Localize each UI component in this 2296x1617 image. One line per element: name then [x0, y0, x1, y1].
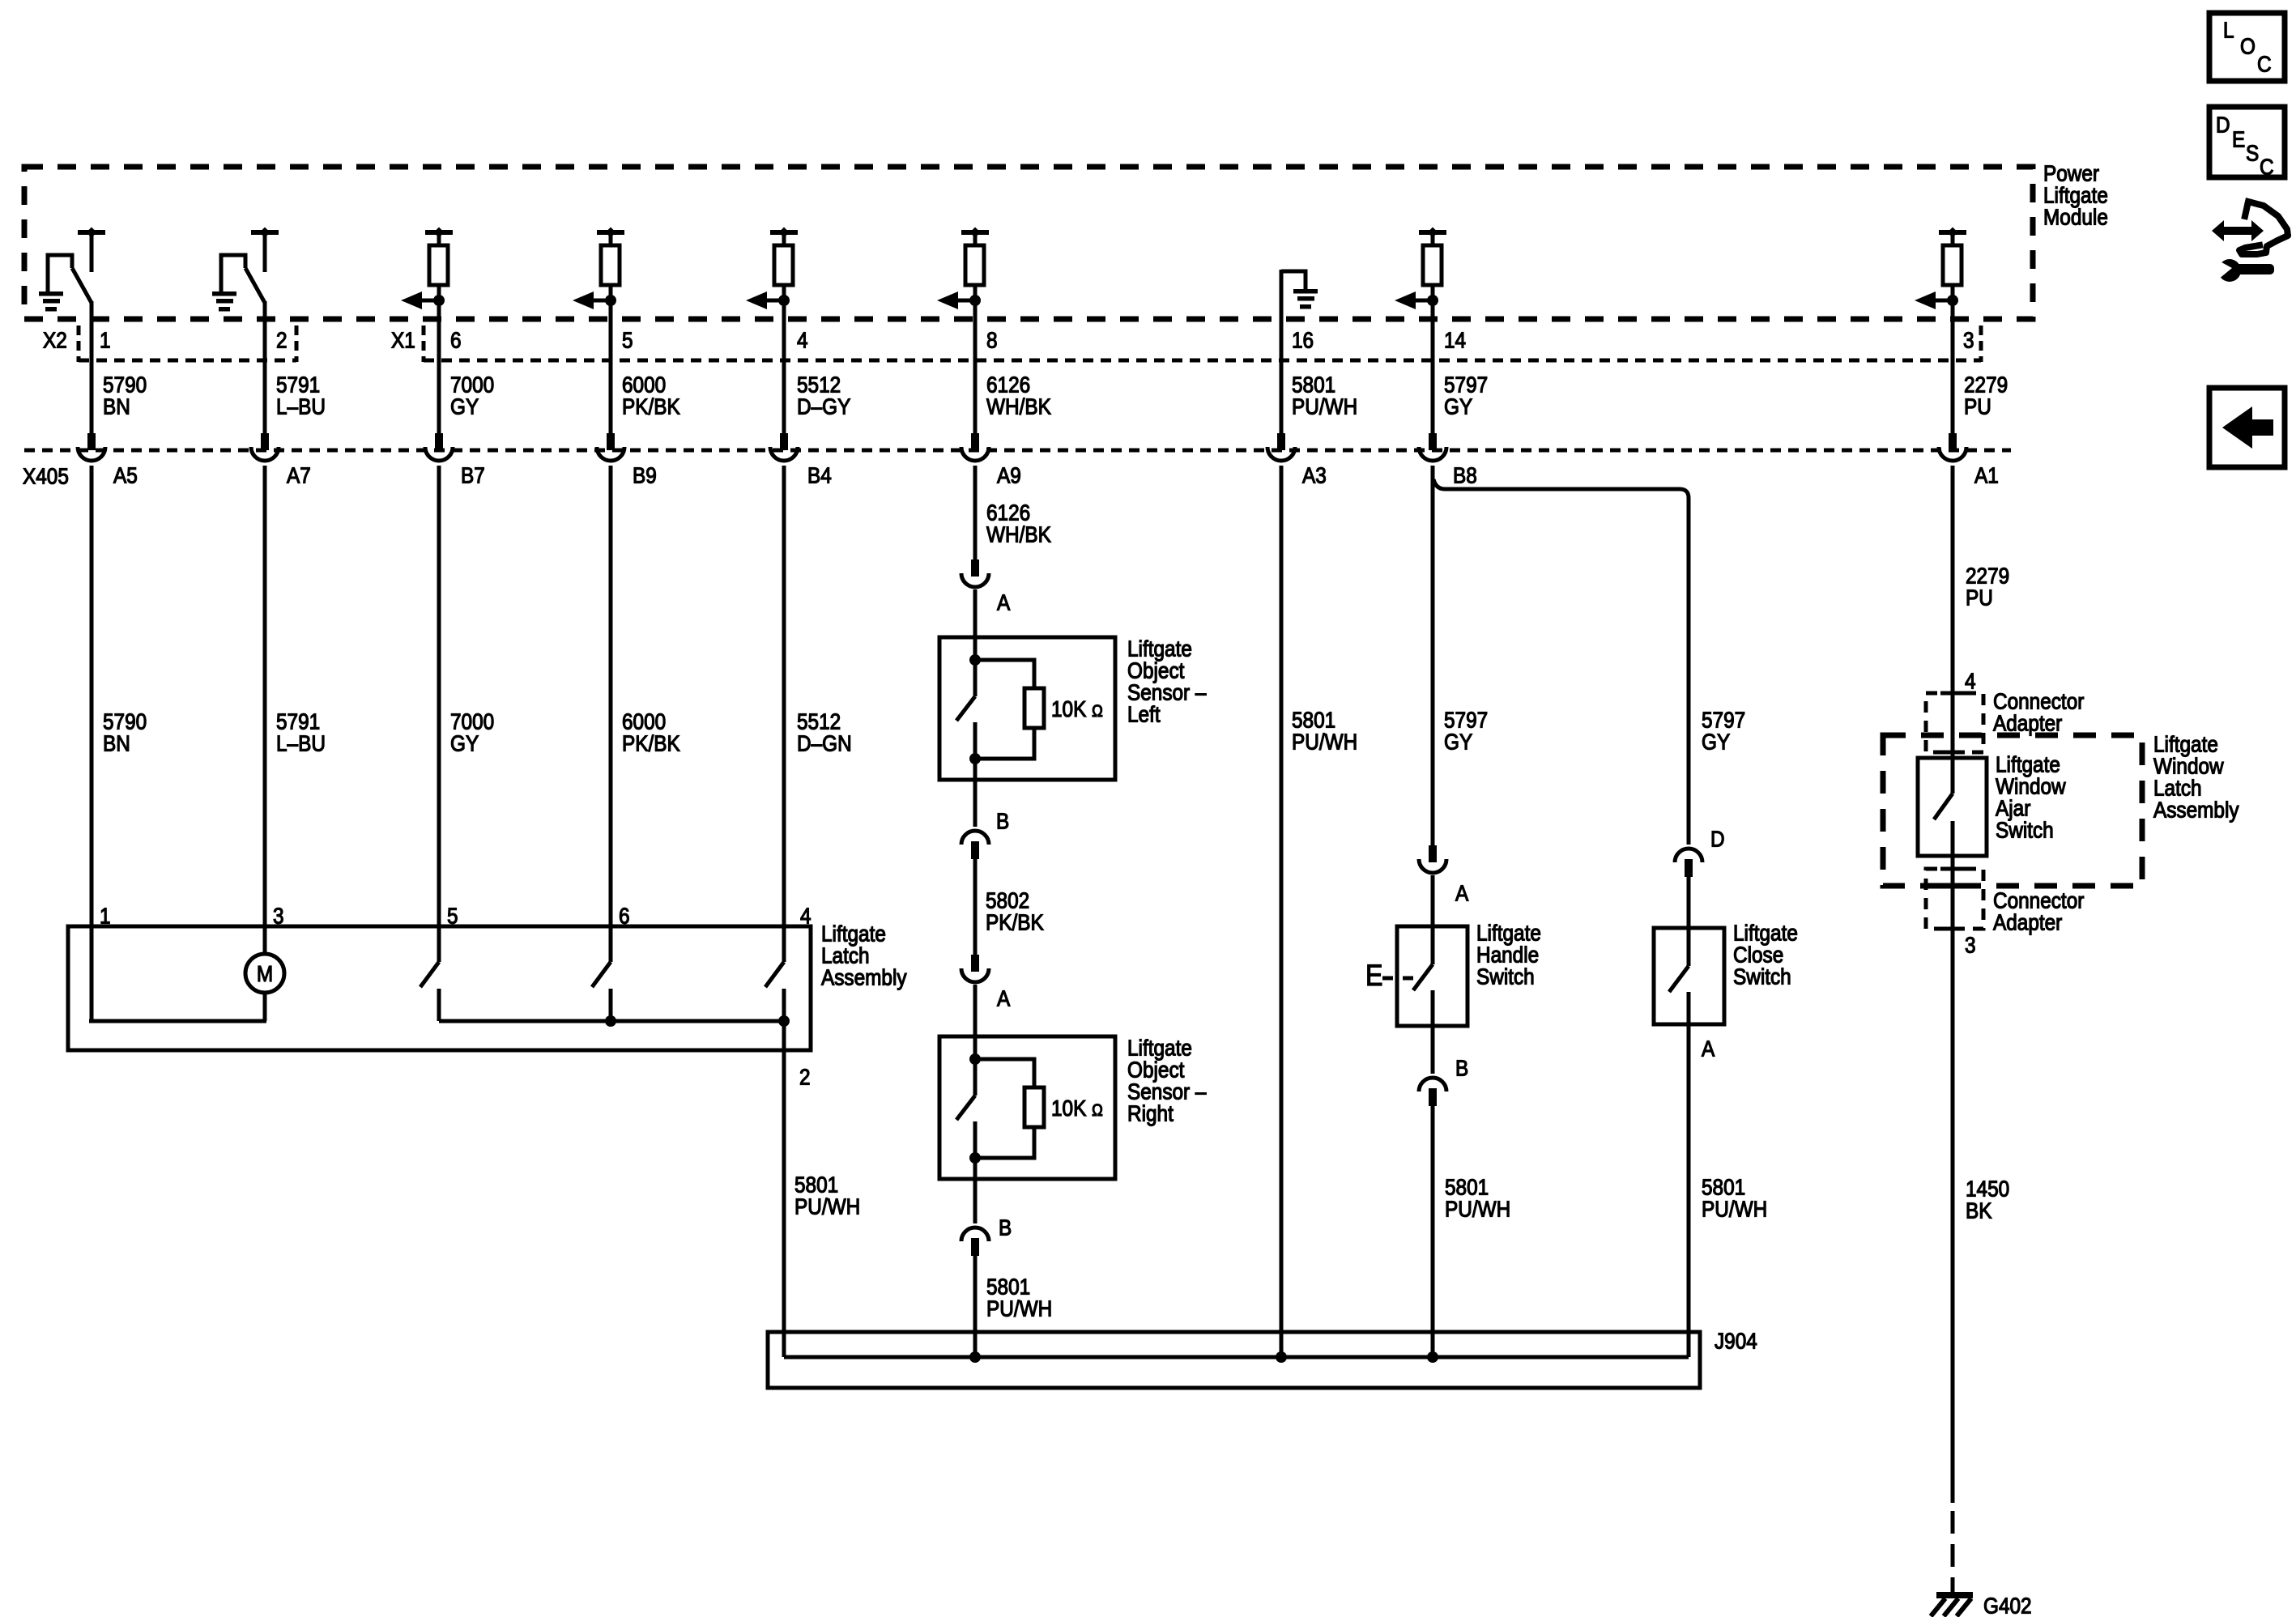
connector X405 terminal B8 — [1419, 433, 1446, 461]
connector X405 terminal A1 — [1939, 433, 1966, 461]
svg-text:X1: X1 — [391, 327, 415, 353]
svg-text:D: D — [2216, 112, 2230, 138]
svg-text:J904: J904 — [1715, 1328, 1757, 1354]
LOC icon box — [2209, 13, 2285, 81]
sensor Right switch — [956, 1096, 975, 1158]
wire sensor right to B — [973, 1179, 978, 1223]
svg-text:5: 5 — [622, 327, 633, 353]
connector X405 terminal A5 — [78, 433, 105, 461]
svg-text:3: 3 — [1963, 327, 1974, 353]
wire 5801 PU/WH sensor to J904 — [973, 1256, 978, 1357]
svg-text:6: 6 — [619, 903, 630, 929]
latch switch at pin 6 — [592, 962, 611, 1021]
svg-text:G402: G402 — [1983, 1593, 2032, 1617]
wire resistor to pin 3 — [1951, 285, 1955, 433]
svg-text:X405: X405 — [23, 463, 69, 489]
svg-text:C: C — [2257, 51, 2272, 77]
in-line connector terminal A (sensor right) (pin over cup) — [961, 955, 989, 982]
Liftgate Latch Assembly box — [68, 926, 811, 1050]
wire 5797 GY B8 to handle switch — [1431, 466, 1435, 845]
Liftgate Object Sensor Right box — [939, 1036, 1115, 1179]
wire resistor to pin 8 — [973, 285, 978, 433]
wire resistor to pin 6 — [437, 285, 441, 433]
connector X405 terminal A7 — [251, 433, 279, 461]
latch internal bus (switches) — [439, 1019, 784, 1023]
svg-text:B: B — [1455, 1055, 1468, 1081]
motor M (latch release) — [245, 954, 284, 1021]
svg-text:A3: A3 — [1302, 462, 1327, 488]
svg-text:S: S — [2246, 140, 2259, 166]
svg-text:A: A — [997, 985, 1011, 1011]
connector X405 terminal B7 — [425, 433, 453, 461]
svg-text:B4: B4 — [807, 462, 832, 488]
wire 5801 PU/WH handle to J904 — [1431, 1106, 1435, 1357]
connector X405 row (dotted) — [24, 449, 2011, 453]
resistor (module internal) at pin 5 — [601, 245, 620, 285]
signal direction arrow pin 5 — [573, 291, 611, 309]
wire latch pin 2 to J904 — [782, 1021, 786, 1357]
wire 5802 PK/BK — [973, 859, 978, 955]
in-line connector terminal A (sensor left) (pin over cup) — [961, 560, 989, 587]
node E with dashed link — [1365, 960, 1413, 993]
svg-text:D: D — [1710, 826, 1725, 852]
module pin 2 T-bar contact node — [251, 228, 279, 273]
sensor Right resistor 10K — [975, 1059, 1034, 1087]
Connector Adapter (upper dashed box) — [1926, 693, 1983, 752]
svg-text:E: E — [2232, 126, 2245, 152]
wire below sensor Right — [973, 1158, 978, 1179]
svg-text:C: C — [2260, 154, 2274, 180]
connector X405 terminal A3 — [1267, 433, 1295, 461]
svg-text:O: O — [2240, 33, 2256, 59]
svg-text:4: 4 — [797, 327, 808, 353]
signal direction arrow pin 3 — [1915, 291, 1953, 309]
wire below sensor Left — [973, 759, 978, 780]
connector service icon (arrow + wrench) — [2212, 202, 2288, 282]
in-line connector terminal B (handle switch) (cup over pin) — [1419, 1078, 1446, 1106]
wire to close switch — [1687, 877, 1691, 928]
module pin 4 T-bar contact node — [770, 228, 798, 248]
wire to sensor right — [973, 985, 978, 1036]
svg-text:14: 14 — [1444, 327, 1466, 353]
sensor Right internal wire/junctions — [973, 1036, 978, 1096]
svg-text:B7: B7 — [461, 462, 485, 488]
signal direction arrow pin 4 — [746, 291, 784, 309]
ground symbol (module internal) pin 2 — [212, 291, 236, 312]
Liftgate Object Sensor Left box — [939, 637, 1115, 780]
wire pin 1 — [90, 301, 94, 433]
wire 5801 PU/WH close to J904 — [1687, 1024, 1691, 1357]
svg-text:LiftgateHandleSwitch: LiftgateHandleSwitch — [1476, 920, 1541, 989]
svg-text:A: A — [997, 589, 1011, 615]
latch switch at pin 5 — [420, 962, 439, 1021]
ground G402 symbol — [1931, 1592, 1973, 1616]
connector X1 pin band — [422, 326, 426, 362]
junction node pin 3 — [1947, 295, 1958, 306]
connector X405 terminal B4 — [770, 433, 798, 461]
sensor Left resistor 10K — [975, 660, 1034, 688]
module pin 1 T-bar contact node — [78, 228, 105, 273]
Liftgate Close Switch box — [1654, 928, 1724, 1024]
wire 5512 D-GN to latch pin 4 — [782, 466, 786, 962]
switch contacts inside close switch — [1669, 930, 1689, 1024]
wire to sensor left — [973, 589, 978, 637]
svg-text:A: A — [1455, 880, 1469, 906]
back arrow icon box — [2209, 388, 2285, 467]
signal direction arrow pin 8 — [937, 291, 975, 309]
latch switch at pin 4 — [765, 962, 784, 1021]
wire resistor to pin 4 — [782, 285, 786, 433]
in-line connector terminal D (close switch) (cup over pin) — [1675, 849, 1702, 877]
sensor Left switch — [956, 696, 975, 759]
wire 5801 PU/WH A3 to J904 — [1280, 466, 1284, 1357]
wire 5790 BN to latch pin 1 — [90, 466, 94, 1021]
wire resistor to pin 5 — [609, 285, 613, 433]
svg-text:B: B — [999, 1215, 1012, 1240]
svg-text:M: M — [257, 960, 273, 986]
svg-text:8: 8 — [986, 327, 998, 353]
connector X405 terminal B9 — [597, 433, 624, 461]
svg-text:16: 16 — [1292, 327, 1314, 353]
svg-text:A1: A1 — [1974, 462, 1999, 488]
junction node pin 5 — [605, 295, 616, 306]
svg-text:A9: A9 — [997, 462, 1021, 488]
Liftgate Handle Switch box — [1397, 926, 1467, 1026]
svg-text:5: 5 — [447, 903, 458, 929]
Connector Adapter (lower dashed box) — [1926, 869, 1983, 929]
module pin 5 T-bar contact node — [597, 228, 624, 248]
svg-text:4: 4 — [1965, 668, 1976, 694]
resistor (module internal) at pin 6 — [429, 245, 448, 285]
svg-text:A5: A5 — [113, 462, 138, 488]
wire branch B8 to close switch — [1433, 479, 1689, 845]
resistor (module internal) at pin 3 — [1943, 245, 1962, 285]
svg-text:1: 1 — [100, 327, 111, 353]
latch internal bus (motor) — [89, 1019, 266, 1023]
module pin 14 T-bar contact node — [1419, 228, 1446, 248]
wire 6126 WH/BK below A9 — [973, 466, 978, 560]
svg-text:L: L — [2223, 17, 2234, 43]
svg-text:2: 2 — [799, 1064, 811, 1090]
wire 7000 GY to latch pin 5 — [437, 466, 441, 962]
Power Liftgate Module (dashed box) — [24, 167, 2033, 319]
signal direction arrow pin 14 — [1395, 291, 1433, 309]
svg-text:1: 1 — [100, 903, 111, 929]
module pin 6 T-bar contact node — [425, 228, 453, 248]
svg-text:B8: B8 — [1453, 462, 1477, 488]
svg-text:B: B — [996, 808, 1009, 834]
resistor (module internal) at pin 8 — [965, 245, 984, 285]
splice pack J904 — [768, 1332, 1700, 1388]
connector X2 pin band — [77, 326, 81, 362]
wire resistor to pin 14 — [1431, 285, 1435, 433]
junction node pin 8 — [969, 295, 981, 306]
wire to handle switch — [1431, 875, 1435, 926]
in-line connector terminal B (sensor right) (cup over pin) — [961, 1228, 989, 1256]
DESC icon box — [2209, 107, 2285, 180]
resistor (module internal) at pin 14 — [1423, 245, 1442, 285]
ajar switch contacts — [1934, 794, 1953, 1503]
wire 1450 BK dashed to ground — [1951, 1511, 1955, 1594]
wire pin 2 — [263, 301, 267, 433]
in-line connector terminal B (sensor left) (cup over pin) — [961, 831, 989, 859]
svg-text:4: 4 — [800, 903, 811, 929]
wire 6000 PK/BK to latch pin 6 — [609, 466, 613, 962]
junction dot J904 (A3 wire) — [1276, 1351, 1287, 1363]
junction node pin 14 — [1427, 295, 1438, 306]
resistor (module internal) at pin 4 — [774, 245, 793, 285]
switch to ground (module internal) pin 2 — [221, 255, 265, 303]
ground symbol (module internal) pin 16 — [1281, 271, 1318, 309]
svg-text:2: 2 — [276, 327, 288, 353]
wire sensor left to B — [973, 780, 978, 827]
svg-text:A7: A7 — [287, 462, 311, 488]
junction dot J904 (handle wire) — [1427, 1351, 1438, 1363]
junction node pin 4 — [778, 295, 790, 306]
svg-text:5791L–BU: 5791L–BU — [276, 372, 326, 419]
module pin 8 T-bar contact node — [961, 228, 989, 248]
svg-text:X2: X2 — [43, 327, 67, 353]
signal direction arrow pin 6 — [401, 291, 439, 309]
switch contacts inside handle switch — [1413, 928, 1433, 1026]
junction node pin 6 — [433, 295, 445, 306]
wire pin 16 — [1280, 270, 1284, 433]
svg-text:3: 3 — [273, 903, 284, 929]
Liftgate Window Ajar Switch box — [1918, 758, 1987, 856]
in-line connector terminal A (handle switch) (pin over cup) — [1419, 845, 1446, 873]
switch to ground (module internal) pin 1 — [48, 255, 92, 303]
module pin 3 T-bar contact node — [1939, 228, 1966, 248]
svg-text:3: 3 — [1965, 932, 1976, 958]
sensor Left internal wire/junctions — [973, 637, 978, 696]
svg-text:A: A — [1702, 1036, 1715, 1062]
svg-text:B9: B9 — [633, 462, 657, 488]
wire 2279 PU A1 down — [1951, 466, 1955, 794]
junction dot latch bus — [605, 1015, 616, 1027]
wire handle switch to B — [1431, 1026, 1435, 1074]
connector X405 terminal A9 — [961, 433, 989, 461]
junction dot J904 (sensor wire) — [969, 1351, 981, 1363]
svg-text:5791L–BU: 5791L–BU — [276, 709, 326, 756]
junction dot latch bus pin 4 — [778, 1015, 790, 1027]
ground symbol (module internal) pin 1 — [39, 291, 63, 312]
Liftgate Window Latch Assembly (dashed box) — [1883, 735, 2142, 886]
wire 5791 L-BU to latch pin 3 — [263, 466, 267, 955]
svg-text:E: E — [1365, 960, 1382, 993]
svg-text:6: 6 — [450, 327, 462, 353]
svg-text:PowerLiftgateModule: PowerLiftgateModule — [2043, 160, 2108, 230]
